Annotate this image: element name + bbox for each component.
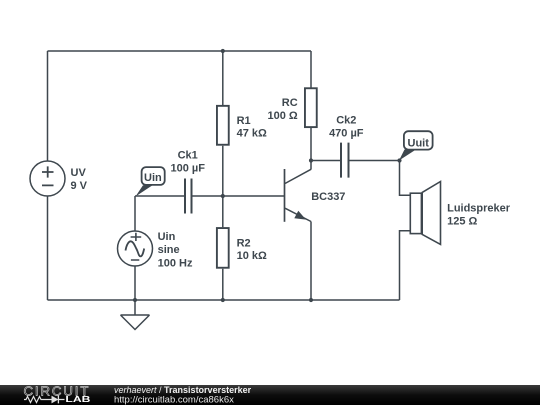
svg-text:Uuit: Uuit (408, 137, 430, 149)
svg-text:RC: RC (282, 97, 298, 109)
svg-text:100 µF: 100 µF (170, 162, 205, 174)
svg-text:Luidspreker: Luidspreker (447, 202, 511, 214)
svg-text:470 µF: 470 µF (329, 127, 364, 139)
svg-text:sine: sine (158, 244, 180, 256)
svg-text:UV: UV (71, 167, 87, 179)
svg-text:LAB: LAB (65, 395, 91, 404)
svg-text:125 Ω: 125 Ω (447, 216, 477, 228)
svg-text:R2: R2 (237, 237, 251, 249)
svg-text:R1: R1 (237, 115, 251, 127)
svg-text:http://circuitlab.com/ca86k6x: http://circuitlab.com/ca86k6x (114, 395, 234, 405)
svg-text:Uin: Uin (144, 172, 162, 184)
svg-text:Uin: Uin (158, 231, 176, 243)
svg-text:100 Ω: 100 Ω (267, 110, 297, 122)
svg-text:100 Hz: 100 Hz (158, 257, 193, 269)
svg-text:10 kΩ: 10 kΩ (237, 250, 267, 262)
svg-text:BC337: BC337 (311, 191, 345, 203)
svg-text:Ck1: Ck1 (178, 149, 198, 161)
svg-text:Ck2: Ck2 (336, 114, 356, 126)
svg-text:47 kΩ: 47 kΩ (237, 128, 267, 140)
svg-text:verhaevert / Transistorverster: verhaevert / Transistorversterker (114, 385, 252, 395)
svg-text:9 V: 9 V (71, 180, 88, 192)
